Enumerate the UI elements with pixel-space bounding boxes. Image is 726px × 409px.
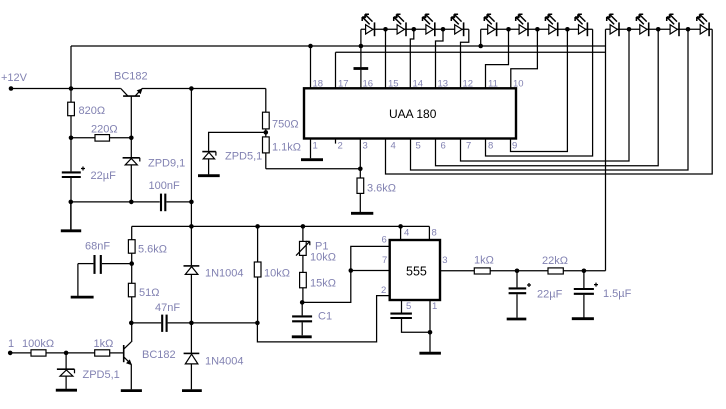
wire pin7 to LED9 node: [461, 29, 630, 161]
wire LED group1 row: [361, 28, 469, 30]
wire LED5 anode riser: [480, 29, 482, 46]
ground below ZPD5,1 upper: [198, 174, 220, 177]
resistor 22k: [542, 255, 606, 274]
svg-text:47nF: 47nF: [155, 302, 180, 314]
potentiometer P1: [296, 226, 336, 272]
IC U2 555: [390, 240, 440, 300]
wire 555 pin8 from bus: [428, 226, 430, 240]
ground 555 pin1: [419, 352, 441, 355]
svg-text:1.1kΩ: 1.1kΩ: [272, 142, 301, 154]
LED D8: [575, 14, 587, 36]
LED D1: [362, 14, 374, 36]
LED D5: [484, 14, 496, 36]
node 1.5uF junction: [582, 269, 587, 274]
svg-text:5.6kΩ: 5.6kΩ: [138, 244, 167, 256]
svg-text:12: 12: [463, 79, 474, 90]
svg-text:6: 6: [382, 235, 387, 246]
node bus junctions: [189, 224, 403, 229]
svg-text:22µF: 22µF: [537, 289, 563, 301]
zener ZPD5,1 upper: [202, 151, 262, 175]
transistor Q1 BC182 top: [114, 71, 148, 97]
IC U1 UAA 180: [304, 88, 516, 138]
ground below 22uF: [61, 229, 81, 232]
svg-text:51Ω: 51Ω: [139, 287, 159, 299]
wire 100nF node to ground: [70, 202, 72, 230]
svg-text:1: 1: [432, 301, 437, 312]
LED D2: [394, 14, 406, 36]
wire +12V horizontal to Q1 collector: [11, 88, 121, 90]
resistor 1.1k: [263, 137, 302, 169]
wire pin15 column: [385, 29, 387, 88]
wire 555 pin3 output: [440, 270, 474, 272]
svg-text:3: 3: [442, 255, 447, 266]
LED D7: [545, 14, 557, 36]
svg-text:22µF: 22µF: [91, 170, 117, 182]
wire emitter node down to bus: [190, 89, 192, 266]
pin labels bottom row: [313, 141, 518, 152]
ground 22uF bottom: [507, 318, 527, 321]
wire pin2 stub: [335, 139, 337, 144]
wire pin4 to LED12 node: [386, 29, 713, 174]
svg-text:750Ω: 750Ω: [272, 119, 299, 131]
svg-text:100kΩ: 100kΩ: [22, 338, 54, 350]
svg-text:18: 18: [313, 79, 324, 90]
ground pin1: [301, 158, 323, 161]
wire pin8 to LED8 node: [486, 29, 593, 156]
resistor 10k vertical: [254, 226, 290, 323]
LED D3: [423, 14, 435, 36]
ground below 3.6k: [351, 212, 373, 215]
resistor 820R: [68, 89, 105, 138]
svg-text:15kΩ: 15kΩ: [310, 278, 336, 290]
svg-text:22kΩ: 22kΩ: [542, 255, 568, 267]
svg-text:1N4004: 1N4004: [205, 356, 244, 368]
svg-text:7: 7: [466, 141, 471, 152]
wire C1 node to 555 pins 6,7: [302, 246, 390, 302]
svg-text:4: 4: [391, 141, 396, 152]
svg-text:555: 555: [406, 265, 427, 279]
LED D6: [516, 14, 528, 36]
wire Q1 emitter rail: [142, 88, 266, 90]
ground 1N4004: [182, 389, 202, 392]
svg-text:3: 3: [363, 141, 368, 152]
wire pin18 to rail1: [310, 46, 312, 88]
resistor 1k output: [474, 255, 548, 275]
wire riser from +12V line up to rail1: [70, 46, 72, 89]
node +12V line junctions: [69, 86, 194, 91]
svg-text:6: 6: [441, 141, 446, 152]
transistor Q2 BC182 bottom: [124, 342, 176, 390]
svg-text:+12V: +12V: [1, 72, 28, 84]
svg-text:ZPD5,1: ZPD5,1: [83, 369, 120, 381]
wire pin1 to ground: [310, 139, 312, 159]
svg-text:ZPD5,1: ZPD5,1: [225, 151, 262, 163]
svg-text:5: 5: [406, 301, 411, 312]
ground 1.5uF: [572, 317, 594, 320]
wire 132.4 node to zener ZPD5,1: [209, 132, 266, 151]
svg-text:BC182: BC182: [142, 349, 176, 361]
ground C1: [292, 335, 312, 338]
svg-text:10: 10: [513, 79, 524, 90]
wire 68nF to ground: [77, 264, 79, 296]
wire trigger route to 555 pin2: [257, 296, 389, 342]
LED D10: [636, 14, 648, 36]
wire pin12 jog: [461, 29, 469, 88]
wire pin16 with bar: [354, 46, 369, 88]
zener ZPD5,1 lower: [57, 353, 120, 389]
svg-text:1: 1: [8, 338, 14, 350]
svg-text:15: 15: [388, 79, 399, 90]
ground ZPD5,1 lower: [56, 389, 77, 392]
resistor 3.6k: [357, 178, 396, 212]
wire long vertical rail2 to bottom right: [605, 29, 607, 270]
svg-text:4: 4: [404, 228, 409, 239]
wire Q1 base down: [130, 96, 132, 138]
ground 68nF: [71, 296, 94, 299]
LED D4: [451, 14, 463, 36]
wire lower bus 323: [131, 322, 257, 324]
wire pin13 jog: [436, 29, 444, 88]
node 100nF line junctions: [69, 200, 194, 205]
capacitor C1: [292, 302, 332, 335]
svg-text:C1: C1: [318, 311, 332, 323]
wire pin3 down: [359, 139, 361, 179]
svg-text:220Ω: 220Ω: [91, 124, 118, 136]
svg-text:8: 8: [488, 141, 493, 152]
svg-text:820Ω: 820Ω: [79, 105, 106, 117]
zener ZPD9,1: [123, 138, 186, 202]
svg-text:68nF: 68nF: [85, 241, 110, 253]
svg-text:1: 1: [313, 141, 318, 152]
node pin1/cap junction: [428, 330, 433, 335]
wire pin10 step: [511, 29, 538, 88]
capacitor 22uF electrolytic left: [62, 138, 116, 230]
capacitor 10n at 555 pin5: [390, 300, 430, 332]
svg-text:9: 9: [512, 141, 517, 152]
LED row junction dots: [383, 27, 690, 32]
svg-text:100nF: 100nF: [149, 180, 180, 192]
svg-text:ZPD9,1: ZPD9,1: [148, 158, 185, 170]
diode 1N1004: [184, 266, 244, 323]
LED D11: [667, 14, 679, 36]
resistor 1k base: [94, 338, 124, 356]
resistor 750R: [263, 89, 299, 137]
capacitor 68nF: [78, 241, 132, 274]
wire pin11 step: [486, 29, 509, 88]
node lower bus junctions: [129, 321, 260, 326]
node +12V input: [1, 72, 28, 91]
svg-text:5: 5: [416, 141, 421, 152]
node rail1 junctions: [308, 44, 483, 49]
555 pin labels: [381, 228, 448, 313]
resistor 51R: [128, 264, 159, 342]
svg-text:BC182: BC182: [114, 71, 148, 83]
svg-text:1kΩ: 1kΩ: [474, 255, 494, 267]
LED D9: [607, 14, 619, 36]
node 100k/zener junction: [64, 351, 69, 356]
svg-text:16: 16: [363, 79, 374, 90]
resistor 5.6k: [128, 226, 167, 263]
svg-text:1.5µF: 1.5µF: [603, 288, 632, 300]
node 15k/C1 junction: [300, 300, 305, 305]
pin labels top row: [313, 79, 524, 90]
capacitor 1.5uF: [574, 271, 632, 318]
resistor 15k: [300, 272, 336, 302]
svg-text:8: 8: [432, 228, 437, 239]
capacitor 22uF bottom: [509, 271, 563, 318]
LED D12: [697, 14, 709, 36]
node input 1: [8, 338, 14, 355]
node pin3 junction: [358, 167, 363, 172]
svg-text:UAA 180: UAA 180: [389, 107, 437, 121]
svg-text:10kΩ: 10kΩ: [264, 268, 290, 280]
wire LED group2 row: [481, 28, 593, 30]
svg-text:2: 2: [381, 285, 386, 296]
node 750R/1.1k junction: [264, 130, 269, 135]
ground Q2 emitter: [121, 389, 142, 392]
node 5.6k/51R junction: [129, 261, 134, 266]
svg-text:3.6kΩ: 3.6kΩ: [367, 183, 396, 195]
node pin7 junction: [349, 268, 354, 273]
wire 555 pin1 to ground: [429, 300, 431, 352]
svg-text:14: 14: [413, 79, 424, 90]
svg-text:7: 7: [382, 255, 387, 266]
svg-text:11: 11: [488, 79, 498, 90]
resistor 220R: [71, 124, 131, 142]
wire pin5 to LED11 node: [411, 29, 689, 170]
capacitor 47nF: [155, 302, 180, 332]
wire 1.1k to pin3 node: [266, 168, 361, 170]
wire 555 pin4 stub: [400, 226, 402, 240]
wire pin9 to LED7 node: [511, 29, 568, 151]
diode 1N4004: [184, 323, 244, 389]
wire LED1 anode riser: [360, 29, 362, 46]
capacitor 100nF: [71, 180, 192, 211]
svg-text:2: 2: [338, 141, 343, 152]
wire pin14 jog: [410, 29, 414, 88]
resistor 100k: [10, 338, 95, 356]
node 22uF junction: [515, 269, 520, 274]
wire bus 226: [132, 225, 430, 227]
svg-text:1kΩ: 1kΩ: [94, 338, 114, 350]
wire pin6 to LED10 node: [436, 29, 659, 165]
wire rail2 from pin17: [336, 51, 606, 53]
svg-text:17: 17: [338, 79, 349, 90]
svg-text:1N1004: 1N1004: [205, 268, 244, 280]
node 220R junctions: [69, 136, 134, 141]
wire rail1 top supply: [71, 45, 606, 47]
svg-text:10kΩ: 10kΩ: [310, 252, 336, 264]
wire LED group3 row: [606, 28, 713, 30]
wire pin17 to rail2: [335, 52, 337, 88]
svg-text:13: 13: [438, 79, 449, 90]
